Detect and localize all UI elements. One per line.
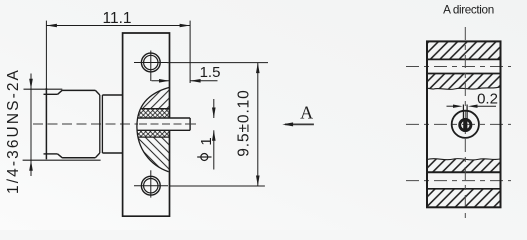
- thread crest line bottom: [23, 159, 101, 161]
- dimension 1.5: [152, 80, 218, 82]
- hatch band 1 (top): [427, 41, 501, 59]
- chamfer bottom-right: [95, 153, 99, 158]
- chamfer top-left: [58, 90, 63, 94]
- chamfer top-right: [95, 90, 99, 95]
- undercut groove line 1: [99, 95, 101, 153]
- dimension 9.5±0.10: [167, 63, 268, 186]
- bore strip bottom: upper edge line: [427, 171, 501, 173]
- metal wedge lower (hatch): [130, 137, 172, 173]
- dimension phi-1 (pin diameter): [213, 99, 215, 170]
- svg-text:9.5±0.10: 9.5±0.10: [236, 89, 253, 156]
- hatch band 2 with wavy break bottom: [427, 74, 501, 90]
- mounting hole bore strip (top): [427, 59, 501, 73]
- barrel bottom edge: [62, 157, 95, 159]
- flange horizontal centerline (middle): [406, 123, 511, 125]
- mounting hole bottom: [134, 170, 168, 197]
- cutaway break arc: [137, 87, 170, 171]
- thread root line top: [44, 93, 58, 95]
- dielectric boundary line upper: [130, 108, 172, 110]
- thread callout 1/4-36UNS-2A: [30, 74, 32, 177]
- wavy break line (upper): [427, 87, 501, 90]
- bore strip bottom: lower edge line: [427, 188, 501, 190]
- thread root line bottom: [44, 153, 58, 155]
- dimension 0.2 (slot width): [447, 105, 497, 107]
- thread crest line top: [24, 88, 63, 90]
- mounting hole top: [134, 51, 168, 82]
- center pin: [137, 118, 195, 130]
- svg-text:1: 1: [198, 137, 215, 145]
- hole horizontal centerline (top): [406, 66, 511, 68]
- connector body left face: [45, 88, 47, 159]
- svg-text:A direction: A direction: [443, 4, 494, 17]
- centerline (side view axis): [33, 123, 196, 125]
- bore strip bottom edge line: [427, 73, 501, 75]
- mounting hole bore strip (bottom): [427, 173, 501, 189]
- view vertical centerline: [464, 27, 466, 220]
- metal wedge upper (hatch): [130, 85, 172, 109]
- hatch band 4 (bottom): [427, 189, 501, 208]
- svg-text:A: A: [300, 103, 313, 123]
- dimension 11.1: [46, 21, 190, 88]
- undercut groove line 2: [101, 95, 103, 153]
- bore strip top edge line: [427, 58, 501, 60]
- dielectric band lower (cross-hatch): [130, 131, 172, 138]
- cutaway hatch fills: [130, 85, 172, 173]
- dielectric band upper (cross-hatch): [130, 109, 172, 118]
- flange plate outline: [123, 33, 170, 216]
- flange front outline box: [427, 41, 501, 207]
- svg-text:0.2: 0.2: [477, 91, 498, 108]
- center hole with slotted pin: [452, 105, 479, 138]
- neck top edge: [102, 94, 122, 96]
- hole horizontal centerline (bottom): [406, 180, 511, 182]
- chamfer bottom-left: [58, 154, 63, 158]
- view direction arrow A: [285, 123, 314, 125]
- barrel top edge: [62, 89, 95, 91]
- neck bottom edge: [102, 152, 122, 154]
- hatch band 3 below lower wavy break line: [427, 159, 501, 173]
- svg-text:1.5: 1.5: [200, 64, 221, 81]
- wavy break line (lower): [427, 159, 501, 160]
- dielectric boundary line lower: [130, 136, 172, 138]
- svg-text:11.1: 11.1: [102, 10, 131, 27]
- svg-text:1/4-36UNS-2A: 1/4-36UNS-2A: [5, 68, 22, 194]
